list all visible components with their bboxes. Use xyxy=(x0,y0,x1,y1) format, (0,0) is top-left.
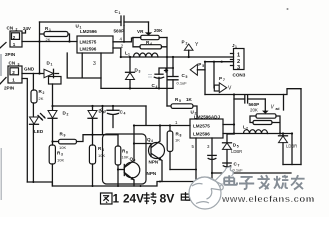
svg-text:3: 3 xyxy=(139,70,141,74)
svg-text:2: 2 xyxy=(67,113,69,117)
resistor R2 xyxy=(31,74,45,118)
diode D2 xyxy=(48,105,69,145)
resistor R5 xyxy=(167,97,197,119)
svg-text:ad: ad xyxy=(276,107,280,111)
svg-text:2K: 2K xyxy=(39,96,44,101)
svg-text:P: P xyxy=(198,62,201,67)
resistor R1 xyxy=(40,26,71,43)
wire Q4 base xyxy=(134,143,151,145)
wire stage2 output corner xyxy=(283,132,301,164)
wire top rail xyxy=(40,21,149,23)
svg-text:20K: 20K xyxy=(250,108,258,113)
svg-text:2K: 2K xyxy=(46,37,51,42)
svg-text:24V: 24V xyxy=(23,26,31,31)
svg-text:10K: 10K xyxy=(59,145,66,150)
potentiometer VR 20K xyxy=(133,22,167,40)
svg-text:CN: CN xyxy=(9,61,16,66)
wire riser to stage2 rail xyxy=(204,62,206,95)
svg-text:9: 9 xyxy=(64,134,66,138)
caption char 路 xyxy=(194,193,207,203)
svg-text:2: 2 xyxy=(237,59,240,65)
watermark char 烧 xyxy=(274,175,288,189)
wire emitter return xyxy=(170,169,197,171)
transistor Q4 xyxy=(147,124,165,181)
ground rail bottom xyxy=(27,181,212,188)
pin 3 xyxy=(93,53,101,88)
svg-text:0.1uF: 0.1uF xyxy=(233,168,244,173)
resistor R4 xyxy=(89,145,105,186)
svg-text:NPN: NPN xyxy=(149,160,159,165)
svg-text:5: 5 xyxy=(202,64,204,68)
caption char 电 xyxy=(181,192,192,200)
inductor L1 xyxy=(121,51,158,58)
svg-text:4: 4 xyxy=(151,139,153,143)
wire U2 pin3 down xyxy=(211,138,213,182)
svg-text:7: 7 xyxy=(223,78,225,82)
diode D5 xyxy=(223,134,243,174)
watermark fist logo xyxy=(189,177,223,209)
svg-text:0.1uF: 0.1uF xyxy=(177,81,188,86)
resistor R6 xyxy=(115,135,129,187)
capacitor C4 electrolytic xyxy=(148,68,173,90)
cable tick into CN3 xyxy=(0,78,6,85)
wire C1 to pin4 xyxy=(123,26,125,43)
capacitor C5 xyxy=(168,56,188,89)
wire left riser xyxy=(39,22,41,74)
test point P2 xyxy=(182,40,200,59)
svg-text:4: 4 xyxy=(124,112,126,116)
svg-text:2: 2 xyxy=(13,35,16,40)
test point P7 xyxy=(214,62,232,93)
label 2PIN CN3 xyxy=(4,86,15,91)
svg-text:3: 3 xyxy=(104,110,106,114)
wire output 8V xyxy=(158,56,234,58)
ground rail stage2 xyxy=(212,172,291,174)
wire U2 pin4 stub xyxy=(223,124,234,126)
svg-text:CON3: CON3 xyxy=(233,73,246,78)
resistor R3 xyxy=(49,145,64,186)
svg-text:560P: 560P xyxy=(114,29,125,34)
caption text 8V xyxy=(160,192,176,206)
svg-text:LM2596: LM2596 xyxy=(80,29,97,34)
op-amp U1 regulator xyxy=(76,24,114,54)
svg-text:P: P xyxy=(182,40,185,45)
wire stage2 switch riser xyxy=(233,93,235,134)
svg-text:10K: 10K xyxy=(122,155,129,160)
wire U2 pin2 stub xyxy=(223,133,234,135)
fuse box below D1 xyxy=(49,77,62,85)
pin 5 bar xyxy=(67,53,101,78)
svg-text:LM2575: LM2575 xyxy=(80,40,97,45)
svg-text:1: 1 xyxy=(12,78,15,83)
svg-text:3: 3 xyxy=(237,65,240,71)
label 2PIN CN2 xyxy=(5,52,16,57)
wire U2 pin5 down xyxy=(195,138,197,182)
wire D1 down to input bus xyxy=(52,84,54,110)
potentiometer VR2 xyxy=(250,99,276,123)
connector CN3 xyxy=(8,61,22,84)
diode D4 xyxy=(88,105,105,145)
module box xyxy=(101,105,146,184)
wire right frame xyxy=(300,89,302,165)
svg-text:LM2596: LM2596 xyxy=(80,47,97,52)
caption char 转 xyxy=(144,192,157,204)
inductor L2 xyxy=(234,125,292,134)
watermark char 子 xyxy=(239,177,254,189)
svg-text:1: 1 xyxy=(237,53,240,59)
connector CN2 xyxy=(7,26,26,48)
capacitor C3 electrolytic xyxy=(100,105,126,128)
wire stage2 feed xyxy=(134,106,190,126)
watermark url xyxy=(221,194,315,205)
svg-text:1K: 1K xyxy=(186,97,193,102)
svg-text:NPN: NPN xyxy=(147,171,157,176)
svg-text:www.elecfans.com: www.elecfans.com xyxy=(221,194,315,205)
ground rail stage1 xyxy=(101,87,173,89)
label GND xyxy=(24,67,35,72)
svg-text:1K: 1K xyxy=(175,138,180,143)
svg-text:10K: 10K xyxy=(57,158,64,163)
svg-text:3: 3 xyxy=(93,61,96,67)
svg-text:20K: 20K xyxy=(154,28,163,33)
watermark wrench xyxy=(207,167,233,195)
wire J1 pin2 net xyxy=(204,61,234,63)
capacitor C8 560P xyxy=(234,96,265,113)
svg-text:2: 2 xyxy=(186,42,188,46)
capacitor C7 xyxy=(223,162,243,173)
speck xyxy=(287,8,289,10)
resistor R9 horizontal xyxy=(51,132,118,150)
node B xyxy=(38,72,40,74)
label 24V xyxy=(23,26,31,31)
svg-text:2PIN: 2PIN xyxy=(5,52,16,57)
connector J1 xyxy=(231,43,246,78)
caption text 1 24V xyxy=(113,192,145,206)
wire 24V input xyxy=(22,41,77,43)
resistor R11 under pot xyxy=(253,116,281,135)
watermark char 电 xyxy=(224,175,237,185)
svg-text:10K: 10K xyxy=(98,153,105,158)
svg-text:24V: 24V xyxy=(123,192,144,206)
svg-text:8V: 8V xyxy=(160,192,176,206)
capacitor C6 electrolytic xyxy=(208,155,216,159)
capacitor C1 xyxy=(114,9,125,34)
svg-text:1: 1 xyxy=(119,11,121,15)
pin 4 xyxy=(113,37,133,42)
svg-text:CN: CN xyxy=(7,26,14,31)
svg-text:GND: GND xyxy=(24,67,35,72)
op-amp U2 regulator xyxy=(190,110,223,150)
svg-text:LM2575: LM2575 xyxy=(193,124,210,129)
watermark char 友 xyxy=(291,175,305,189)
svg-text:LM2596: LM2596 xyxy=(193,132,210,137)
svg-text:4: 4 xyxy=(150,42,152,46)
svg-text:3: 3 xyxy=(61,153,63,157)
resistor R10 under pot xyxy=(133,38,168,107)
wire stage2 top rail xyxy=(205,89,301,95)
caption char 图 xyxy=(101,193,113,204)
pin 2 xyxy=(113,44,124,59)
svg-text:1: 1 xyxy=(113,192,120,206)
svg-text:2: 2 xyxy=(43,91,45,95)
wire CN3 pin1 down xyxy=(22,79,27,183)
scan edge mark xyxy=(0,54,2,200)
wire GND from CN3 xyxy=(22,73,59,75)
LED D9 xyxy=(30,114,46,183)
watermark char 发 xyxy=(258,175,270,189)
svg-text:2: 2 xyxy=(12,70,15,75)
svg-text:LDBR: LDBR xyxy=(231,149,242,154)
svg-text:1: 1 xyxy=(13,42,16,47)
svg-text:P: P xyxy=(219,76,222,81)
diode D3 xyxy=(126,56,141,89)
resistor R8 xyxy=(167,124,181,169)
transistor Q3 xyxy=(118,157,157,187)
svg-text:VR: VR xyxy=(137,29,144,34)
svg-text:5: 5 xyxy=(186,75,188,79)
svg-text:560P: 560P xyxy=(249,102,260,107)
cable tick into CN2 xyxy=(0,43,6,49)
node A xyxy=(38,40,40,42)
svg-text:2PIN: 2PIN xyxy=(4,86,15,91)
svg-text:1: 1 xyxy=(51,63,53,67)
svg-text:LED: LED xyxy=(34,129,44,134)
svg-text:1: 1 xyxy=(128,53,130,57)
svg-text:5: 5 xyxy=(179,99,181,103)
wire input bus xyxy=(53,105,147,107)
diode D7 xyxy=(279,132,298,164)
diode D1 xyxy=(44,61,54,78)
label Vad xyxy=(271,95,284,112)
test point P5 xyxy=(190,62,205,75)
wire Q3 collector riser xyxy=(133,124,135,160)
